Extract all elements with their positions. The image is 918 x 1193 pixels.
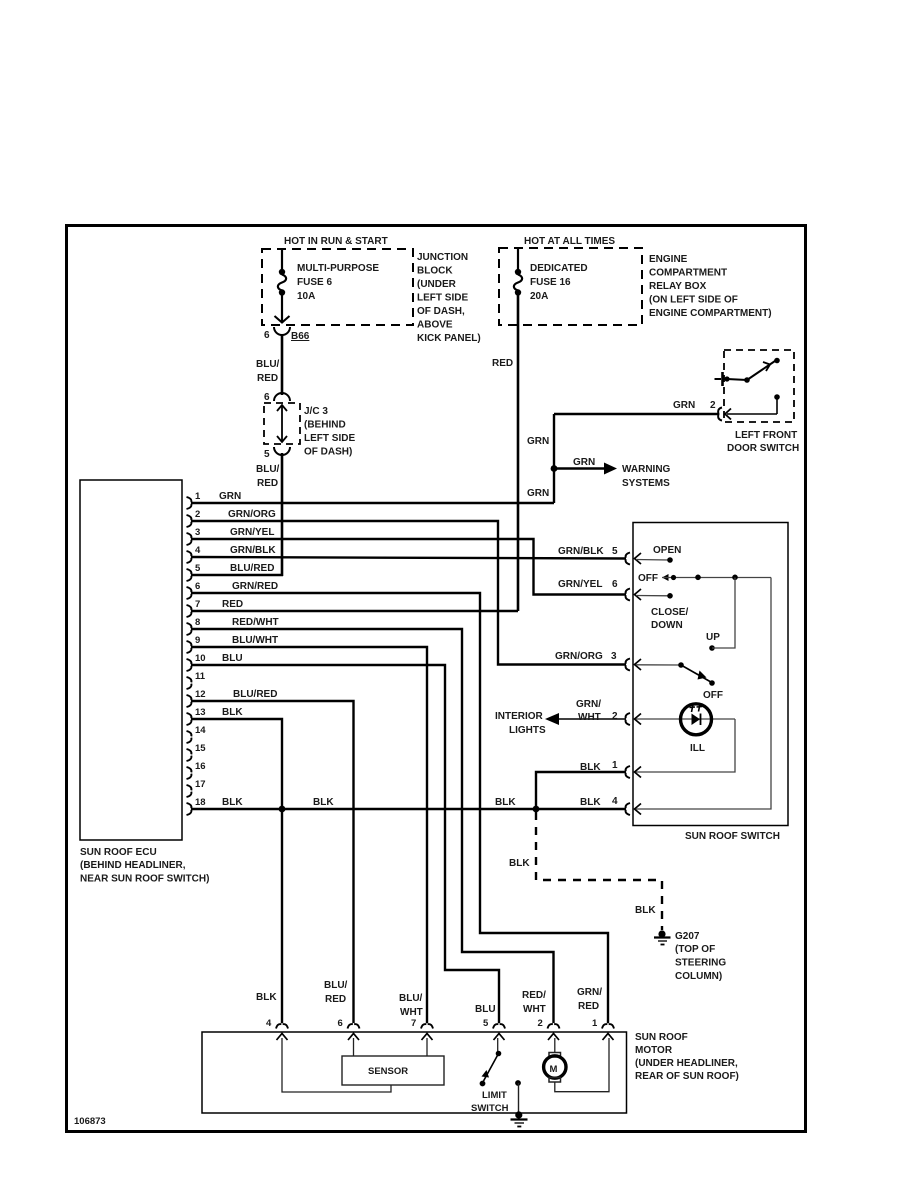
svg-text:2: 2 (612, 711, 618, 722)
ECU pin 9 connector (187, 635, 201, 653)
svg-text:BLU/: BLU/ (256, 464, 280, 475)
label SUN ROOF ECU (BEHIND HEADLINER, NEAR SUN ROOF SWITCH) (80, 847, 209, 885)
svg-text:SUN ROOF: SUN ROOF (635, 1032, 688, 1043)
door switch plunger and contacts (715, 358, 780, 386)
svg-text:B66: B66 (291, 331, 310, 342)
svg-text:RED: RED (325, 994, 346, 1005)
svg-text:(UNDER: (UNDER (417, 279, 457, 290)
dashed BLK wire to ground G207 (509, 812, 662, 930)
svg-text:4: 4 (266, 1018, 272, 1029)
svg-text:OFF: OFF (703, 690, 723, 701)
left front door switch dashed box (724, 350, 794, 422)
sun roof switch pin connector 2 ILL (626, 713, 641, 725)
ECU pin 15 connector (187, 743, 207, 761)
svg-text:BLK: BLK (635, 905, 656, 916)
svg-text:DOWN: DOWN (651, 620, 683, 631)
svg-text:FUSE 16: FUSE 16 (530, 277, 571, 288)
SUN ROOF MOTOR box (202, 1032, 627, 1113)
svg-text:ILL: ILL (690, 743, 705, 754)
svg-text:RED: RED (257, 478, 278, 489)
svg-text:J/C 3: J/C 3 (304, 406, 328, 417)
svg-text:6: 6 (338, 1018, 343, 1029)
svg-text:RED: RED (492, 358, 513, 369)
label HOT IN RUN & START (284, 236, 388, 247)
label LEFT FRONT DOOR SWITCH (727, 430, 799, 454)
svg-text:106873: 106873 (74, 1116, 106, 1127)
svg-text:ENGINE: ENGINE (649, 254, 688, 265)
wire GRN/ORG net: ECU pin 2 to switch pin 3 (191, 509, 626, 665)
svg-text:1: 1 (195, 491, 201, 502)
svg-text:GRN/ORG: GRN/ORG (228, 509, 276, 520)
ECU pin 11 connector (187, 671, 206, 689)
motor M (544, 1038, 609, 1092)
wire fuse 6 to B66 with arrowhead (275, 294, 290, 323)
wire RED from fuse 16 down to ECU pin 7 row (492, 294, 518, 611)
ECU pin 17 connector (187, 779, 206, 797)
svg-text:GRN/: GRN/ (577, 987, 602, 998)
door switch pin 2 connector (718, 408, 731, 421)
svg-text:SYSTEMS: SYSTEMS (622, 478, 670, 489)
label SUN ROOF SWITCH (685, 831, 780, 842)
svg-text:5: 5 (612, 546, 618, 557)
svg-text:COLUMN): COLUMN) (675, 971, 722, 982)
svg-text:BLU/: BLU/ (324, 980, 348, 991)
junction block dashed box (262, 249, 413, 325)
svg-text:BLU/: BLU/ (399, 993, 423, 1004)
wire BLK net: ECU pin 13 down to motor pin 4 (191, 707, 282, 1023)
svg-text:KICK PANEL): KICK PANEL) (417, 333, 481, 344)
svg-text:LEFT SIDE: LEFT SIDE (304, 433, 355, 444)
svg-text:16: 16 (195, 761, 206, 772)
switch CLOSE/DOWN contact (636, 593, 688, 631)
svg-text:GRN/BLK: GRN/BLK (558, 546, 604, 557)
svg-text:BLU/RED: BLU/RED (230, 563, 274, 574)
svg-text:REAR OF SUN ROOF): REAR OF SUN ROOF) (635, 1071, 739, 1082)
label HOT AT ALL TIMES (524, 236, 615, 247)
ECU pin 3 connector (187, 527, 201, 545)
svg-text:OFF: OFF (638, 573, 658, 584)
svg-text:17: 17 (195, 779, 206, 790)
svg-text:GRN: GRN (573, 457, 595, 468)
sensor box (342, 1056, 444, 1085)
switch UP contact and rail (706, 578, 735, 651)
svg-text:SUN ROOF ECU: SUN ROOF ECU (80, 847, 157, 858)
svg-text:FUSE 6: FUSE 6 (297, 277, 332, 288)
svg-text:RED: RED (222, 599, 243, 610)
motor case ground stub (511, 1080, 528, 1126)
svg-text:10A: 10A (297, 291, 315, 302)
value label MULTI-PURPOSE FUSE 6 10A (297, 263, 379, 302)
svg-text:BLU/RED: BLU/RED (233, 689, 277, 700)
svg-text:WHT: WHT (523, 1004, 546, 1015)
SUN ROOF ECU box (80, 480, 182, 840)
wire motor pin 4 to sensor bottom (282, 1038, 391, 1092)
svg-text:STEERING: STEERING (675, 958, 726, 969)
svg-text:GRN/BLK: GRN/BLK (230, 545, 276, 556)
INTERIOR LIGHTS arrow from switch pin 2 (495, 699, 626, 736)
svg-text:DOOR SWITCH: DOOR SWITCH (727, 443, 799, 454)
ECU pin 2 connector (187, 509, 201, 527)
svg-text:BLU: BLU (222, 653, 243, 664)
svg-text:BLK: BLK (222, 797, 243, 808)
sun roof switch pin connector 1 (626, 766, 641, 778)
switch OFF common rail (upper) (638, 573, 771, 584)
ECU pin 12 connector (187, 689, 206, 707)
svg-text:HOT IN RUN & START: HOT IN RUN & START (284, 236, 388, 247)
svg-text:WHT: WHT (578, 712, 601, 723)
svg-text:GRN: GRN (527, 488, 549, 499)
sun roof switch pin connector 4 (626, 803, 641, 815)
ECU pin 1 connector (187, 491, 202, 509)
label JUNCTION BLOCK (UNDER LEFT SIDE OF DASH, ABOVE KICK PANEL) (417, 252, 481, 344)
svg-text:OF DASH): OF DASH) (304, 447, 352, 458)
wire BLK branch to switch pin 1 (536, 760, 626, 809)
svg-text:8: 8 (195, 617, 200, 628)
relay box dashed box (499, 248, 642, 325)
svg-text:ABOVE: ABOVE (417, 320, 453, 331)
svg-text:(ON LEFT SIDE OF: (ON LEFT SIDE OF (649, 295, 738, 306)
svg-text:11: 11 (195, 671, 206, 682)
svg-text:(BEHIND HEADLINER,: (BEHIND HEADLINER, (80, 860, 186, 871)
svg-text:7: 7 (411, 1018, 416, 1029)
diagram number 106873 (74, 1116, 106, 1127)
svg-text:GRN/YEL: GRN/YEL (230, 527, 274, 538)
svg-text:COMPARTMENT: COMPARTMENT (649, 268, 727, 279)
svg-text:NEAR SUN ROOF SWITCH): NEAR SUN ROOF SWITCH) (80, 874, 209, 885)
value label DEDICATED FUSE 16 20A (530, 263, 588, 302)
svg-text:LEFT FRONT: LEFT FRONT (735, 430, 797, 441)
wire feed into fuse 6 (281, 249, 283, 270)
label ENGINE COMPARTMENT RELAY BOX (ON LEFT SIDE OF ENGINE COMPARTMENT) (649, 254, 772, 319)
sun roof motor pin 4 connector (BLK) (266, 1018, 288, 1040)
wire BLU/WHT net: ECU pin 9 to motor pin 7 (191, 635, 427, 1023)
switch pin 3 wiper with OFF contact (636, 662, 723, 701)
svg-text:6: 6 (264, 392, 270, 403)
svg-text:OPEN: OPEN (653, 545, 681, 556)
connector 6 into J/C 3 (264, 392, 290, 403)
ECU pin 4 connector (187, 545, 202, 563)
svg-text:(UNDER HEADLINER,: (UNDER HEADLINER, (635, 1058, 738, 1069)
svg-text:LEFT SIDE: LEFT SIDE (417, 293, 468, 304)
svg-text:10: 10 (195, 653, 206, 664)
svg-text:12: 12 (195, 689, 206, 700)
door switch pin 2 contact and wire (710, 394, 780, 414)
GRN net: door switch feed, junction, ECU pin 1 row (191, 400, 719, 503)
ECU pin 5 connector (187, 563, 202, 581)
svg-text:4: 4 (195, 545, 201, 556)
svg-text:UP: UP (706, 632, 720, 643)
svg-text:WARNING: WARNING (622, 464, 671, 475)
svg-text:GRN/RED: GRN/RED (232, 581, 278, 592)
switch right rail OFF to pin 4 (636, 578, 771, 810)
ECU pin 16 connector (187, 761, 206, 779)
svg-text:BLK: BLK (580, 762, 601, 773)
svg-text:LIMIT: LIMIT (482, 1090, 507, 1101)
svg-text:SUN ROOF SWITCH: SUN ROOF SWITCH (685, 831, 780, 842)
svg-text:(TOP OF: (TOP OF (675, 944, 715, 955)
svg-text:1: 1 (612, 760, 618, 771)
svg-text:9: 9 (195, 635, 200, 646)
svg-text:RED: RED (578, 1001, 599, 1012)
svg-text:BLU/: BLU/ (256, 359, 280, 370)
sun roof motor pin 6 connector (BLU/RED) (338, 1018, 360, 1040)
ground G207 (654, 930, 726, 982)
wire feed into fuse 16 (517, 248, 519, 270)
svg-text:HOT AT ALL TIMES: HOT AT ALL TIMES (524, 236, 615, 247)
ECU pin 10 connector (187, 653, 206, 671)
svg-text:GRN: GRN (673, 400, 695, 411)
svg-text:WHT: WHT (400, 1007, 423, 1018)
wire BLU net: ECU pin 10 to motor pin 5 (191, 653, 499, 1023)
svg-text:OF DASH,: OF DASH, (417, 306, 465, 317)
svg-text:6: 6 (195, 581, 200, 592)
svg-text:BLK: BLK (256, 992, 277, 1003)
wire GRN/BLK net: ECU pin 4 to switch pin 5 (191, 545, 626, 559)
wire GRN/YEL net: ECU pin 3 to switch pin 6 (191, 527, 626, 595)
svg-text:2: 2 (195, 509, 200, 520)
wire GRN/RED net: ECU pin 6 to motor pin 1 (191, 581, 608, 1023)
wire motor pin 6 to sensor (353, 1038, 355, 1056)
svg-text:14: 14 (195, 725, 206, 736)
connector 5 out of J/C 3 (264, 447, 290, 460)
sun roof switch pin connector 6 CLOSE (626, 589, 641, 601)
limit switch (471, 1038, 509, 1114)
ECU pin 14 connector (187, 725, 207, 743)
wire J/C 3 down to ECU pin 5 column, BLU/RED (256, 453, 282, 576)
wire motor pin 7 to sensor (426, 1038, 428, 1056)
svg-text:RED/WHT: RED/WHT (232, 617, 279, 628)
svg-text:INTERIOR: INTERIOR (495, 711, 544, 722)
svg-text:SWITCH: SWITCH (471, 1103, 509, 1114)
sun roof motor pin 1 connector (GRN/RED) (592, 1018, 614, 1040)
wire BLU/RED net: ECU pin 12 to motor pin 6 (191, 689, 354, 1023)
sun roof switch pin connector 3 (626, 659, 641, 671)
ECU pin 13 connector (187, 707, 206, 725)
sun roof motor pin 2 connector (RED/WHT) (538, 1018, 560, 1040)
svg-text:CLOSE/: CLOSE/ (651, 607, 688, 618)
wire RED/WHT net: ECU pin 8 to motor pin 2 (191, 617, 554, 1023)
svg-text:3: 3 (611, 651, 617, 662)
label J/C 3 (BEHIND LEFT SIDE OF DASH) (304, 406, 355, 458)
svg-text:LIGHTS: LIGHTS (509, 725, 546, 736)
ECU pin 6 connector (187, 581, 201, 599)
svg-text:ENGINE COMPARTMENT): ENGINE COMPARTMENT) (649, 308, 772, 319)
svg-text:1: 1 (592, 1018, 598, 1029)
svg-text:BLK: BLK (313, 797, 334, 808)
svg-text:7: 7 (195, 599, 200, 610)
svg-text:G207: G207 (675, 931, 700, 942)
svg-text:BLOCK: BLOCK (417, 266, 453, 277)
svg-text:6: 6 (612, 579, 618, 590)
svg-text:M: M (550, 1064, 558, 1075)
svg-text:RED: RED (257, 373, 278, 384)
svg-text:3: 3 (195, 527, 200, 538)
switch OPEN contact (636, 545, 681, 563)
svg-text:GRN: GRN (219, 491, 241, 502)
svg-text:RED/: RED/ (522, 990, 546, 1001)
SUN ROOF SWITCH box (633, 523, 788, 826)
svg-text:SENSOR: SENSOR (368, 1066, 408, 1077)
svg-text:2: 2 (710, 400, 716, 411)
fuse 16 (DEDICATED FUSE 16 20A) (514, 269, 522, 296)
svg-text:5: 5 (195, 563, 201, 574)
svg-text:BLK: BLK (222, 707, 243, 718)
svg-text:GRN/: GRN/ (576, 699, 601, 710)
branch arrow to WARNING SYSTEMS (557, 457, 671, 489)
illumination lamp ILL (636, 704, 735, 754)
sun roof motor pin 5 connector (BLU) (483, 1018, 505, 1040)
svg-text:BLU: BLU (475, 1004, 496, 1015)
sun roof motor pin 7 connector (BLU/WHT) (411, 1018, 433, 1040)
wire BLK net: ECU pin 18 row to switch pin 4 (191, 796, 626, 812)
svg-text:18: 18 (195, 797, 206, 808)
svg-text:15: 15 (195, 743, 206, 754)
switch lamp rail to pin 1 (636, 719, 735, 772)
wire ECU pin 7 row RED (191, 610, 518, 613)
label SUN ROOF MOTOR (UNDER HEADLINER, REAR OF SUN ROOF) (635, 1032, 739, 1082)
svg-text:DEDICATED: DEDICATED (530, 263, 588, 274)
svg-text:GRN/YEL: GRN/YEL (558, 579, 602, 590)
junction connector J/C 3 dashed box with through arrow (264, 403, 300, 444)
svg-text:MOTOR: MOTOR (635, 1045, 673, 1056)
connector B66, pin 6 (264, 327, 310, 342)
fuse 6 (MULTI-PURPOSE FUSE 6 10A) (278, 269, 286, 296)
svg-text:13: 13 (195, 707, 206, 718)
svg-text:BLK: BLK (580, 797, 601, 808)
svg-text:BLK: BLK (495, 797, 516, 808)
svg-text:GRN/ORG: GRN/ORG (555, 651, 603, 662)
ECU pin 18 connector (187, 797, 206, 815)
svg-text:5: 5 (264, 449, 270, 460)
svg-text:JUNCTION: JUNCTION (417, 252, 468, 263)
ECU pin 8 connector (187, 617, 201, 635)
svg-text:2: 2 (538, 1018, 543, 1029)
svg-text:20A: 20A (530, 291, 548, 302)
svg-text:6: 6 (264, 330, 270, 341)
wire RED label at pin 7 (222, 599, 243, 610)
wire B66 to J/C 3, BLU/RED (256, 334, 282, 395)
outer border frame (67, 226, 806, 1132)
ECU pin 7 connector (187, 599, 201, 617)
svg-text:(BEHIND: (BEHIND (304, 420, 346, 431)
svg-text:GRN: GRN (527, 436, 549, 447)
svg-text:5: 5 (483, 1018, 489, 1029)
svg-text:MULTI-PURPOSE: MULTI-PURPOSE (297, 263, 379, 274)
svg-text:BLK: BLK (509, 858, 530, 869)
sun roof switch pin connector 5 OPEN (626, 553, 641, 565)
wire BLU/RED: ECU pin 5 row (191, 563, 283, 575)
svg-text:4: 4 (612, 796, 618, 807)
svg-text:BLU/WHT: BLU/WHT (232, 635, 278, 646)
svg-text:RELAY BOX: RELAY BOX (649, 281, 707, 292)
